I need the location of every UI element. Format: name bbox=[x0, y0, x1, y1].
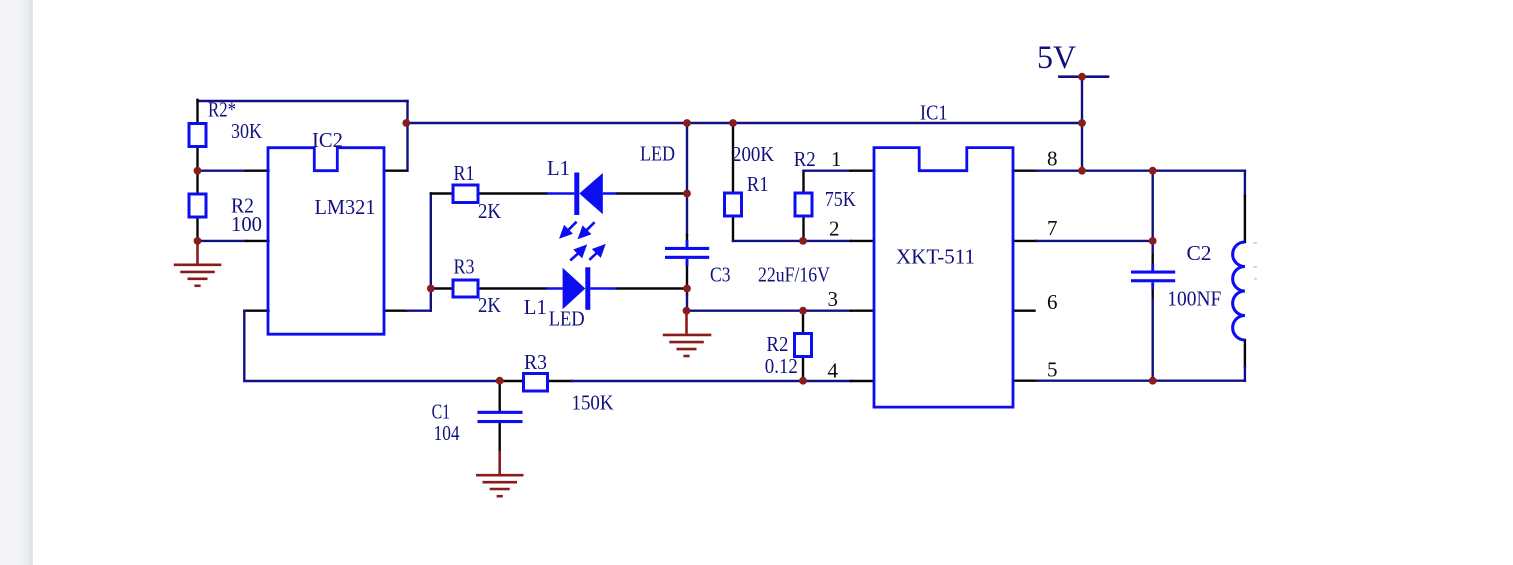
svg-text:200K: 200K bbox=[732, 142, 774, 166]
resistor R1 2K bbox=[453, 185, 478, 203]
LED L1 bottom (anode left) bbox=[563, 267, 591, 310]
svg-text:5V: 5V bbox=[1037, 40, 1076, 76]
svg-text:75K: 75K bbox=[825, 187, 856, 211]
junction C1 node on bottom net bbox=[496, 377, 504, 385]
wire C2 branch x=1152.7 bbox=[1151, 171, 1153, 255]
svg-text:0.12: 0.12 bbox=[765, 354, 798, 378]
svg-text:6: 6 bbox=[1047, 290, 1058, 314]
wire XKT pin7 stub bbox=[1013, 240, 1037, 242]
svg-text:7: 7 bbox=[1047, 216, 1058, 240]
junction 5V at pin8 row bbox=[1078, 167, 1086, 175]
junction C2 top at pin7 row bbox=[1149, 237, 1157, 245]
wire bottom net to XKT pin4 bbox=[572, 380, 852, 382]
wire pin5 net y=380.7 to coil bottom bbox=[1037, 380, 1245, 382]
junction top wire x IC1 net bbox=[402, 119, 410, 127]
svg-text:L1: L1 bbox=[524, 295, 547, 319]
junction pin2 node bbox=[799, 237, 807, 245]
wire R2 0.12 stubs x=803 bbox=[802, 311, 804, 381]
svg-text:2K: 2K bbox=[478, 199, 501, 223]
wire LED net vertical x=687 bbox=[686, 123, 688, 235]
junction 5V x IC1 wire bbox=[1078, 119, 1086, 127]
resistor R3 2K bbox=[453, 280, 478, 297]
wire XKT pin5 stub bbox=[1013, 380, 1037, 382]
svg-text:C3: C3 bbox=[710, 263, 731, 287]
ground (left, R2 bottom) bbox=[174, 241, 222, 286]
resistor R2 0.12 bbox=[795, 334, 812, 357]
svg-text:150K: 150K bbox=[572, 391, 614, 415]
resistor R2 75K bbox=[795, 193, 812, 216]
power 5V bar bbox=[1059, 75, 1108, 78]
LED emission arrows (up-right pair) bbox=[570, 246, 603, 260]
junction LED bottom row bbox=[683, 285, 691, 293]
svg-text:C2: C2 bbox=[1187, 241, 1212, 265]
junction 5V bar bbox=[1078, 73, 1086, 81]
wire LM321 bottom-left pin bbox=[244, 310, 268, 312]
svg-text:100NF: 100NF bbox=[1167, 287, 1221, 311]
wire pin1 row y=170.7 bbox=[804, 169, 851, 171]
svg-text:5: 5 bbox=[1047, 358, 1058, 382]
svg-text:3: 3 bbox=[828, 287, 839, 311]
wire LM321 pin row y=240.9 left bbox=[198, 240, 247, 242]
svg-text:IC2: IC2 bbox=[312, 128, 343, 152]
svg-text:IC1: IC1 bbox=[920, 101, 948, 125]
resistor R3 150K bbox=[524, 374, 548, 392]
svg-text:L1: L1 bbox=[547, 156, 570, 180]
wire vertical x=407.5 from top wire to LM321 right pin bbox=[406, 101, 408, 171]
wire pin3 row y=310.7 bbox=[687, 310, 852, 312]
capacitor C3 22uF/16V bbox=[665, 240, 709, 266]
wire XKT pin8 stub bbox=[1013, 169, 1037, 171]
junction at R2 bottom / ground y=240.9 bbox=[194, 237, 202, 245]
junction LED top row bbox=[683, 190, 691, 198]
resistor R2* 30K bbox=[189, 124, 206, 147]
wire IC1 supply net y=123 bbox=[406, 122, 1082, 124]
wire R3 150K right pin bbox=[548, 380, 572, 382]
svg-text:8: 8 bbox=[1047, 147, 1058, 171]
wire pin8 net y=170.7 to coil top bbox=[1037, 169, 1245, 171]
junction pin3 node at R2 0.12 bbox=[799, 307, 807, 315]
svg-text:LED: LED bbox=[640, 142, 675, 166]
junction C2 branch at pin8 row bbox=[1149, 167, 1157, 175]
wire R1 2K row y=193.5 bbox=[431, 192, 453, 194]
svg-text:R1: R1 bbox=[454, 161, 475, 185]
wire pin2 row y=240.9 bbox=[733, 240, 851, 242]
svg-text:XKT-511: XKT-511 bbox=[896, 245, 975, 269]
wire R3 2K row y=288.5 bbox=[431, 287, 453, 289]
svg-text:C1: C1 bbox=[432, 400, 451, 424]
svg-text:R3: R3 bbox=[524, 350, 547, 374]
junction C2 bottom at pin5 row bbox=[1149, 377, 1157, 385]
resistor R2 100 bbox=[189, 194, 206, 217]
ground (C3 / pin3 node) bbox=[663, 311, 712, 356]
svg-text:R2: R2 bbox=[766, 332, 788, 356]
svg-text:22uF/16V: 22uF/16V bbox=[758, 263, 830, 287]
wire R3 150K left pin bbox=[500, 380, 524, 382]
IC U1 XKT-511 body bbox=[874, 148, 1013, 408]
wire 200K branch x=733 bbox=[732, 123, 734, 241]
ground (C1 bottom) bbox=[476, 451, 524, 496]
wire 75K stubs x=803.5 bbox=[802, 171, 804, 241]
wire 5V vertical x=1082 bbox=[1081, 77, 1083, 171]
junction R3 row tap x=430.8 bbox=[427, 285, 435, 293]
LED emission arrows (down-left pair) bbox=[561, 222, 594, 237]
wire left column x=197.5 (R2* / R2 string) bbox=[196, 100, 198, 241]
svg-text:2K: 2K bbox=[478, 293, 501, 317]
inductor coil (4 turns) bbox=[1233, 242, 1245, 340]
resistor R1 200K bbox=[725, 193, 742, 216]
svg-text:R2: R2 bbox=[794, 147, 816, 171]
LED L1 top (cathode left) bbox=[574, 173, 603, 216]
svg-text:R1: R1 bbox=[747, 172, 769, 196]
wire LM321 right pin to vertical bbox=[384, 169, 406, 171]
svg-text:2: 2 bbox=[829, 217, 840, 241]
junction LED net x IC1 wire bbox=[683, 119, 691, 127]
left page edge strip (decorative) bbox=[0, 0, 33, 565]
svg-text:R3: R3 bbox=[454, 255, 475, 279]
svg-text:R2*: R2* bbox=[208, 98, 236, 122]
wire pin7 net to C2 bbox=[1037, 240, 1153, 242]
svg-text:104: 104 bbox=[434, 421, 460, 445]
junction 200K top on IC1 wire bbox=[729, 119, 737, 127]
junction C3 ground node bbox=[683, 307, 691, 315]
wire inductor branch x=1244.9 bbox=[1244, 171, 1246, 196]
wire LM321 bottom-right pin bbox=[384, 310, 407, 312]
svg-text:100: 100 bbox=[231, 212, 262, 236]
capacitor C1 104 bbox=[478, 411, 523, 423]
faint marks right of coil bbox=[1253, 242, 1257, 280]
junction at R2*/R2/pin y=170.7 bbox=[194, 167, 202, 175]
junction pin4 node at R2 0.12 bbox=[799, 377, 807, 385]
wire XKT pin6 stub (n.c.) bbox=[1013, 310, 1035, 312]
svg-text:1: 1 bbox=[831, 147, 842, 171]
wire C1 stem x=499.7 bbox=[499, 381, 501, 451]
svg-text:LM321: LM321 bbox=[315, 195, 376, 219]
wire LM321 pin row y=170.7 left bbox=[198, 169, 247, 171]
svg-text:LED: LED bbox=[549, 307, 585, 331]
svg-text:4: 4 bbox=[828, 359, 839, 383]
wire vertical x=430.8 between R1 row and R3 row bbox=[430, 194, 432, 311]
svg-text:30K: 30K bbox=[231, 119, 262, 143]
capacitor C2 100NF bbox=[1131, 264, 1175, 290]
wire top-left net y=101 bbox=[198, 100, 408, 102]
wire feedback left vertical and bottom net y=381 bbox=[244, 311, 500, 381]
op-amp IC2 LM321 body bbox=[268, 148, 384, 335]
